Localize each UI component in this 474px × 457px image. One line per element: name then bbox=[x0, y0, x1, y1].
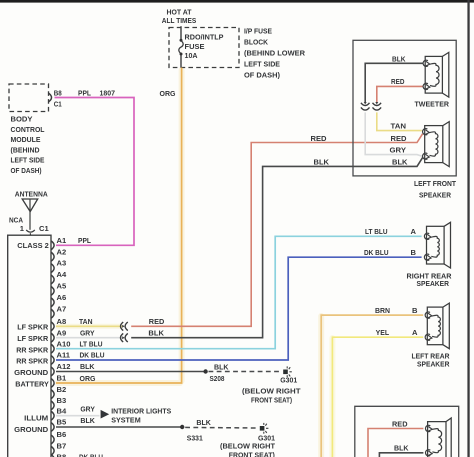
svg-text:B7: B7 bbox=[57, 441, 67, 450]
label RR SPKR (A10) bbox=[16, 345, 48, 354]
svg-text:B4: B4 bbox=[57, 406, 67, 415]
svg-text:A: A bbox=[411, 227, 417, 236]
svg-text:A4: A4 bbox=[57, 270, 67, 279]
pin A6 bbox=[51, 293, 66, 307]
wire BLK (radio A12 ground) bbox=[56, 362, 206, 371]
svg-text:(BEHIND: (BEHIND bbox=[11, 145, 40, 154]
pin B3 bbox=[51, 396, 66, 410]
wire: battery feed HOT AT ALL TIMES label bbox=[162, 8, 197, 26]
svg-text:A9: A9 bbox=[57, 328, 67, 337]
pin B6 bbox=[51, 430, 66, 444]
ground G301 (radio) bbox=[242, 366, 301, 404]
wire TAN (crossover to woofer +) bbox=[377, 112, 422, 130]
svg-text:PPL: PPL bbox=[78, 88, 91, 97]
svg-text:C1: C1 bbox=[39, 224, 49, 233]
svg-text:S208: S208 bbox=[210, 374, 225, 383]
svg-text:A2: A2 bbox=[57, 247, 67, 256]
svg-text:A5: A5 bbox=[57, 282, 67, 291]
pin B2 bbox=[51, 385, 66, 399]
tweeter LF bbox=[415, 52, 450, 108]
body control module (dashed box) bbox=[9, 84, 49, 175]
inline connector (tweeter BLK/GRY) bbox=[361, 102, 370, 110]
svg-text:10A: 10A bbox=[185, 51, 198, 60]
pin B5 bbox=[51, 418, 67, 432]
svg-text:ALL TIMES: ALL TIMES bbox=[162, 16, 197, 25]
pin A2 bbox=[51, 247, 66, 261]
svg-text:A3: A3 bbox=[57, 259, 67, 268]
svg-text:LT BLU: LT BLU bbox=[365, 227, 388, 236]
right front speaker enclosure (box) bbox=[355, 406, 459, 457]
pin A12 bbox=[51, 362, 70, 376]
svg-text:LF SPKR: LF SPKR bbox=[17, 334, 48, 343]
pin B8 of BCM connector C1 bbox=[49, 88, 63, 108]
svg-text:B5: B5 bbox=[57, 418, 67, 427]
svg-text:BLK: BLK bbox=[314, 158, 330, 167]
svg-text:BLK: BLK bbox=[392, 54, 406, 63]
svg-text:SPEAKER: SPEAKER bbox=[417, 279, 450, 288]
svg-text:SYSTEM: SYSTEM bbox=[111, 416, 141, 425]
label GROUND (A12) bbox=[14, 368, 49, 377]
pin A8 bbox=[51, 317, 66, 331]
svg-text:RR SPKR: RR SPKR bbox=[16, 345, 48, 354]
svg-text:FUSE: FUSE bbox=[185, 42, 205, 51]
svg-text:BODY: BODY bbox=[11, 115, 33, 124]
pin A5 bbox=[51, 282, 67, 296]
left front speaker enclosure (box) bbox=[353, 40, 456, 199]
svg-text:ORG: ORG bbox=[80, 374, 96, 383]
svg-text:I/P FUSE: I/P FUSE bbox=[244, 27, 272, 36]
inline connector (A8) bbox=[121, 322, 128, 331]
wire ORG (fuse to radio B1) bbox=[56, 68, 182, 384]
svg-text:G301: G301 bbox=[280, 376, 298, 385]
svg-text:C1: C1 bbox=[54, 100, 63, 109]
svg-text:CLASS 2: CLASS 2 bbox=[17, 241, 49, 250]
svg-text:TWEETER: TWEETER bbox=[415, 100, 450, 109]
svg-text:ORG: ORG bbox=[160, 89, 176, 98]
wire RED (RF tweeter +) bbox=[368, 419, 423, 457]
svg-text:BLOCK: BLOCK bbox=[244, 38, 268, 47]
fuse RDO/INTLP FUSE 10A bbox=[179, 26, 224, 67]
svg-text:DK BLU: DK BLU bbox=[364, 248, 389, 257]
wire RED (tweeter -) bbox=[377, 77, 423, 103]
svg-text:GROUND: GROUND bbox=[14, 368, 49, 377]
ground G301 (below right front seat) bbox=[220, 423, 276, 457]
svg-text:A1: A1 bbox=[57, 236, 67, 245]
pin A10 bbox=[51, 339, 70, 353]
svg-text:LT BLU: LT BLU bbox=[80, 339, 103, 348]
interior lights system arrow bbox=[101, 407, 172, 425]
wire LT BLU (radio A10 to RR speaker A) bbox=[56, 227, 422, 349]
svg-text:A8: A8 bbox=[57, 317, 67, 326]
woofer LF bbox=[423, 122, 450, 167]
pin A9 bbox=[51, 328, 66, 342]
pin B8 (faint, cut off) bbox=[51, 453, 103, 457]
wire PPL 1807 (BCM B8 to radio A1) bbox=[55, 88, 135, 245]
wire BLK dashed (S208 to G301) bbox=[209, 362, 282, 371]
I/P fuse block (dashed box) bbox=[169, 27, 306, 80]
svg-text:(BEHIND LOWER: (BEHIND LOWER bbox=[244, 49, 306, 58]
svg-text:BLK: BLK bbox=[392, 158, 408, 167]
svg-text:LEFT FRONT: LEFT FRONT bbox=[414, 179, 456, 188]
svg-text:ILLUM: ILLUM bbox=[24, 414, 48, 423]
pin A11 bbox=[51, 351, 70, 365]
splice S331 bbox=[180, 425, 203, 443]
svg-text:FRONT SEAT): FRONT SEAT) bbox=[229, 450, 275, 457]
label CLASS 2 bbox=[17, 241, 49, 250]
svg-text:RED: RED bbox=[311, 134, 328, 143]
svg-text:B8: B8 bbox=[57, 453, 67, 457]
inline connector (tweeter RED/TAN) bbox=[373, 102, 382, 110]
svg-text:RED: RED bbox=[149, 317, 165, 326]
wire BLK (tweeter +) bbox=[365, 54, 423, 102]
right rear speaker bbox=[407, 222, 452, 288]
svg-text:B3: B3 bbox=[57, 396, 67, 405]
svg-text:SPEAKER: SPEAKER bbox=[417, 359, 450, 368]
svg-text:LEFT SIDE: LEFT SIDE bbox=[11, 156, 45, 165]
svg-text:GRY: GRY bbox=[390, 146, 407, 155]
pin B1 bbox=[51, 374, 67, 388]
tweeter RF bbox=[426, 418, 452, 457]
svg-text:TAN: TAN bbox=[391, 121, 407, 130]
antenna connector C1 bbox=[26, 230, 35, 235]
pin B7 bbox=[51, 441, 66, 455]
svg-text:BRN: BRN bbox=[375, 306, 390, 315]
left rear speaker bbox=[412, 303, 450, 368]
svg-text:CONTROL: CONTROL bbox=[11, 125, 45, 134]
pin A4 bbox=[51, 270, 67, 284]
svg-text:FRONT SEAT): FRONT SEAT) bbox=[251, 396, 292, 405]
svg-text:A: A bbox=[412, 328, 418, 337]
svg-text:A6: A6 bbox=[57, 293, 67, 302]
svg-text:BLK: BLK bbox=[196, 418, 211, 427]
svg-text:OF DASH): OF DASH) bbox=[11, 166, 42, 175]
wire BRN (left rear speaker B) bbox=[321, 306, 423, 457]
svg-text:LF SPKR: LF SPKR bbox=[17, 323, 48, 332]
wire DK BLU (radio A11 to RR speaker B) bbox=[56, 248, 422, 360]
svg-text:RED: RED bbox=[391, 134, 408, 143]
pin A7 bbox=[51, 304, 66, 318]
svg-text:MODULE: MODULE bbox=[11, 135, 41, 144]
label ILLUM (B4) bbox=[24, 414, 48, 423]
wire BLK (RF tweeter -) bbox=[379, 444, 423, 457]
svg-text:GRY: GRY bbox=[80, 405, 95, 414]
svg-text:1807: 1807 bbox=[100, 88, 116, 97]
svg-text:A12: A12 bbox=[57, 362, 71, 371]
svg-text:DK BLU: DK BLU bbox=[79, 453, 103, 457]
svg-text:BATTERY: BATTERY bbox=[15, 379, 49, 388]
wire RED (to LF speaker +) bbox=[131, 134, 422, 326]
label BATTERY (B1) bbox=[15, 379, 49, 388]
svg-text:BLK: BLK bbox=[394, 444, 409, 453]
svg-text:LEFT SIDE: LEFT SIDE bbox=[244, 60, 280, 69]
wire BLK (to LF speaker -) bbox=[131, 158, 422, 338]
pin A3 bbox=[51, 259, 66, 273]
pin B4 bbox=[51, 406, 67, 420]
svg-text:BLK: BLK bbox=[80, 416, 95, 425]
label LF SPKR (A9) bbox=[17, 334, 48, 343]
svg-text:BLK: BLK bbox=[148, 328, 164, 337]
svg-text:A11: A11 bbox=[57, 351, 71, 360]
svg-text:B: B bbox=[411, 248, 417, 257]
svg-text:PPL: PPL bbox=[78, 236, 91, 245]
svg-text:ANTENNA: ANTENNA bbox=[15, 190, 48, 199]
svg-text:B2: B2 bbox=[57, 385, 67, 394]
svg-text:GROUND: GROUND bbox=[14, 425, 49, 434]
svg-text:A7: A7 bbox=[57, 304, 67, 313]
svg-text:DK BLU: DK BLU bbox=[80, 351, 105, 360]
svg-text:RR SPKR: RR SPKR bbox=[16, 357, 48, 366]
wire TAN (radio A8) bbox=[56, 317, 122, 326]
wire GRY (radio B4 to interior lights) bbox=[56, 405, 100, 416]
inline connector (A9) bbox=[121, 333, 128, 342]
label RR SPKR (A11) bbox=[16, 357, 48, 366]
wire BLK (radio B5 ground) bbox=[56, 416, 182, 427]
label LF SPKR (A8) bbox=[17, 323, 48, 332]
svg-text:OF DASH): OF DASH) bbox=[244, 71, 280, 80]
svg-text:BLK: BLK bbox=[80, 362, 95, 371]
wire YEL (left rear speaker A) bbox=[332, 328, 423, 457]
svg-text:YEL: YEL bbox=[376, 328, 390, 337]
pin A1 bbox=[51, 236, 67, 250]
svg-text:RED: RED bbox=[392, 419, 408, 428]
wire GRY (radio A9) bbox=[56, 328, 122, 337]
svg-text:GRY: GRY bbox=[80, 328, 95, 337]
svg-text:B6: B6 bbox=[57, 430, 67, 439]
svg-text:B: B bbox=[412, 306, 418, 315]
radio connector C1 (body) bbox=[8, 235, 51, 457]
svg-text:SPEAKER: SPEAKER bbox=[419, 191, 451, 200]
svg-text:RED: RED bbox=[391, 77, 405, 86]
svg-text:B1: B1 bbox=[57, 374, 67, 383]
svg-text:RDO/INTLP: RDO/INTLP bbox=[185, 33, 224, 42]
antenna bbox=[9, 190, 49, 233]
wire BLK dashed (S331 to G301) bbox=[185, 418, 258, 428]
svg-text:(BELOW RIGHT: (BELOW RIGHT bbox=[220, 442, 275, 451]
svg-text:TAN: TAN bbox=[79, 317, 93, 326]
splice S208 bbox=[203, 369, 224, 383]
wire GRY (crossover to woofer -) bbox=[365, 112, 422, 156]
svg-text:(BELOW RIGHT: (BELOW RIGHT bbox=[242, 387, 301, 396]
svg-text:BLK: BLK bbox=[214, 362, 229, 371]
label GROUND (B5) bbox=[14, 425, 49, 434]
svg-text:A10: A10 bbox=[57, 339, 71, 348]
svg-text:INTERIOR LIGHTS: INTERIOR LIGHTS bbox=[111, 407, 171, 416]
svg-text:B8: B8 bbox=[54, 88, 62, 97]
svg-text:S331: S331 bbox=[187, 433, 204, 442]
